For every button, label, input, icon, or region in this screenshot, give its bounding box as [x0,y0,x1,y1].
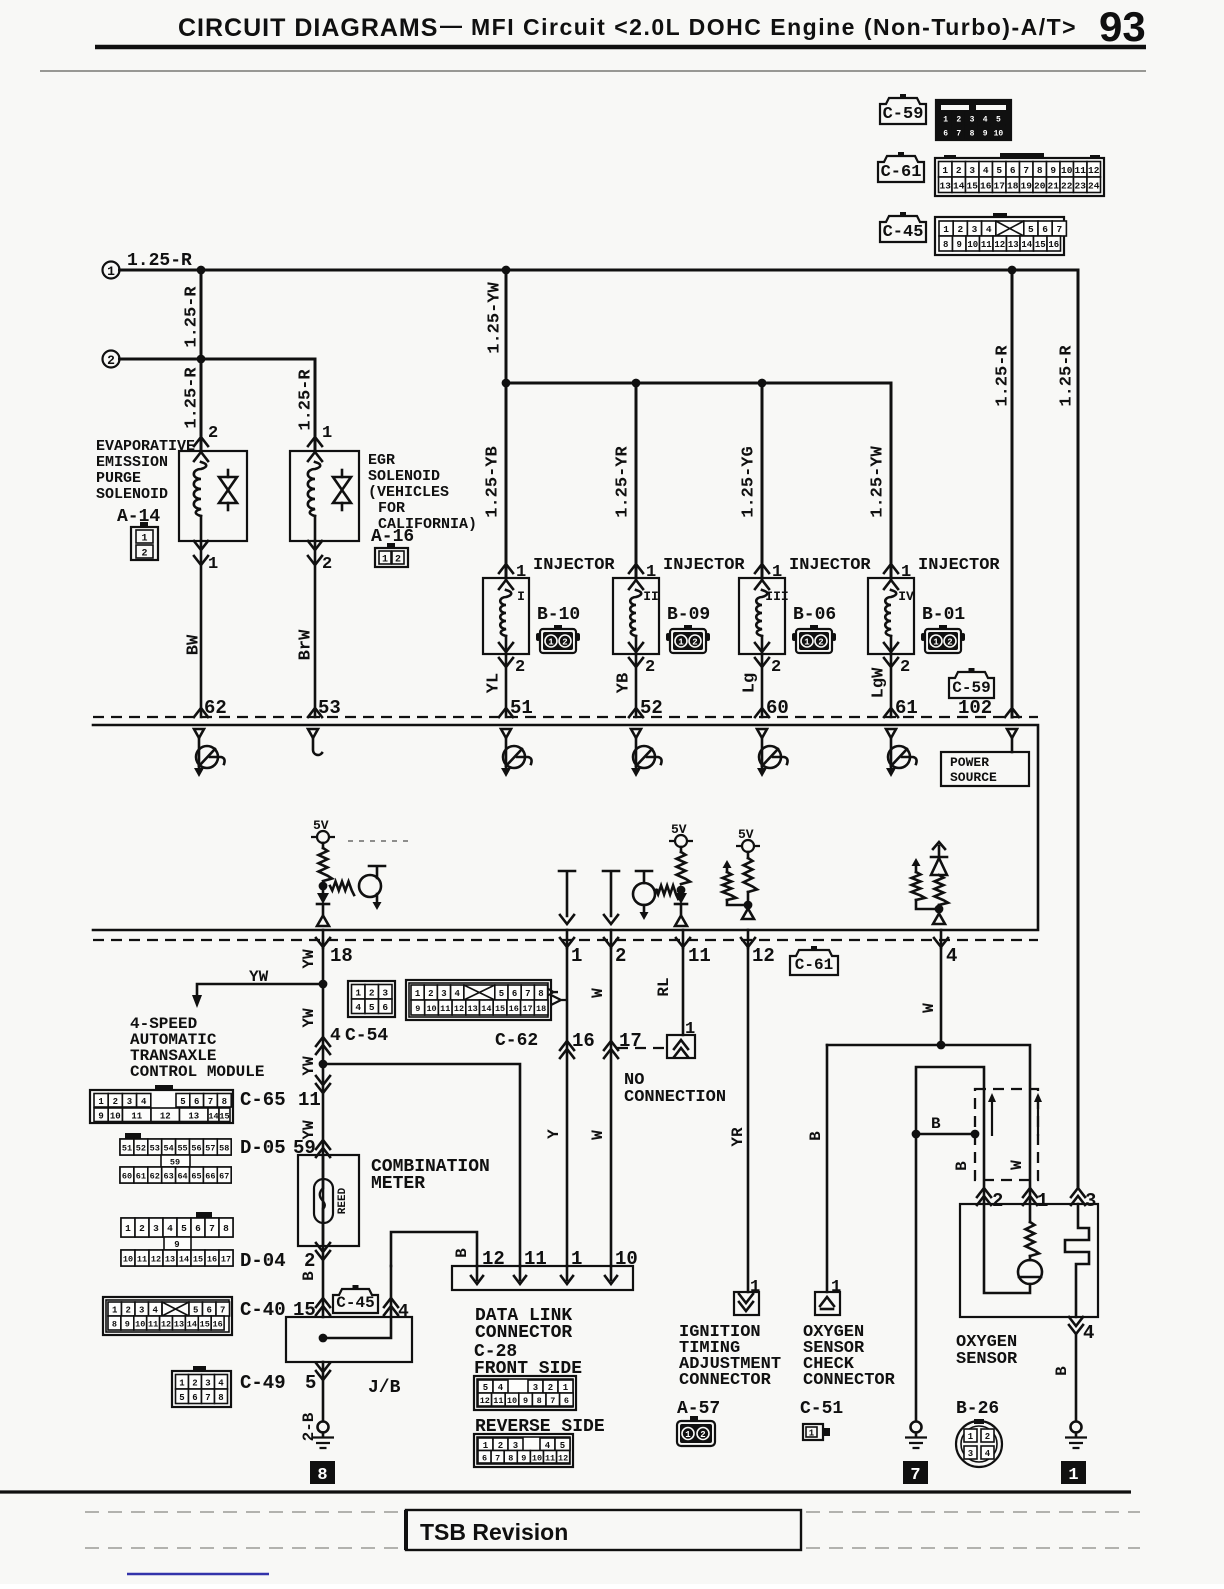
injector B-06 label [789,556,871,575]
svg-text:17: 17 [522,1004,532,1014]
wire label YW c [300,1056,318,1076]
svg-text:17: 17 [221,1255,231,1265]
svg-text:1: 1 [322,424,332,443]
resistor terminal 4 [935,875,949,909]
svg-text:CONTROL MODULE: CONTROL MODULE [130,1063,264,1081]
svg-text:11: 11 [545,1453,555,1463]
svg-text:10: 10 [135,1320,145,1330]
ECU input arrow x=199 [194,729,204,738]
wire B to oxygen sensor check connector [826,1045,829,1292]
TSB Revision box [406,1510,801,1550]
svg-text:13: 13 [468,1004,478,1014]
transistor Q11 [633,871,657,920]
svg-text:1: 1 [943,116,948,125]
pin 1 purge solenoid [208,555,218,574]
svg-text:13: 13 [188,1111,199,1121]
wire LgW to ECU 61 [890,654,893,717]
svg-text:6: 6 [564,1396,569,1406]
oxygen sensor check connector box [815,1278,841,1315]
svg-text:12: 12 [161,1320,171,1330]
svg-text:3: 3 [1085,1190,1096,1212]
wire label 1.25-R vertical lower [182,367,201,429]
connector A-16 label [371,527,414,547]
svg-text:B: B [953,1161,971,1171]
svg-text:C-54: C-54 [345,1026,388,1046]
connector C-49 icon [172,1366,231,1407]
svg-text:SENSOR: SENSOR [956,1350,1018,1369]
svg-text:2: 2 [369,987,375,998]
svg-text:12: 12 [454,1004,464,1014]
svg-text:10: 10 [507,1396,517,1406]
injector B-01 pin 2 [900,658,910,677]
svg-text:B: B [1053,1366,1071,1376]
ECU input arrow x=891 [886,729,896,738]
svg-text:14: 14 [481,1004,491,1014]
connector A-14 icon [131,522,158,560]
svg-text:3: 3 [153,1223,159,1234]
ECU output stem terminal 1 [559,871,575,924]
svg-text:PURGE: PURGE [96,470,141,487]
connector C-61 pin 17 [604,1030,642,1058]
svg-text:1: 1 [382,555,388,566]
svg-text:6: 6 [382,1002,388,1013]
svg-text:4: 4 [454,989,460,999]
svg-text:9: 9 [983,130,988,139]
svg-text:5: 5 [499,989,504,999]
svg-text:7: 7 [220,1306,225,1316]
svg-text:3: 3 [513,1441,518,1451]
svg-text:C-59: C-59 [952,679,990,697]
reed switch [314,1155,349,1246]
ECU stub terminal 53 [313,738,322,755]
svg-text:1.25-R: 1.25-R [296,369,315,431]
wire 1.25-YW down to injector bus [505,270,508,578]
svg-text:13: 13 [174,1320,184,1330]
ignition timing connector label [677,1323,781,1419]
svg-text:6: 6 [1042,224,1048,235]
svg-text:6: 6 [943,130,948,139]
svg-text:—: — [440,13,462,38]
svg-text:J/B: J/B [368,1378,401,1398]
svg-text:53: 53 [150,1144,160,1154]
connector C-51 icon [803,1424,830,1440]
heater ground loop [916,1067,984,1421]
svg-text:C-62: C-62 [495,1031,538,1051]
connector C-61 pin 16 [560,1030,595,1058]
svg-text:I: I [517,589,525,604]
wire 1.25-R to ECU pin 102 [1011,270,1014,717]
svg-text:BW: BW [184,634,203,655]
svg-text:5: 5 [369,1002,375,1013]
connector D-05 pin 59 [240,1137,330,1159]
svg-text:2: 2 [692,638,697,648]
svg-text:5: 5 [305,1372,316,1394]
svg-text:EMISSION: EMISSION [96,454,168,471]
svg-text:4: 4 [218,1378,224,1388]
svg-text:12: 12 [558,1453,568,1463]
wire YR from terminal 12 [747,948,750,1292]
svg-text:B-26: B-26 [956,1399,999,1419]
svg-text:13: 13 [1008,240,1019,250]
injector B-01 pin 1 [901,563,911,582]
svg-text:1: 1 [107,264,115,279]
junction YW to DLC [319,1060,328,1069]
ECU harness dashed line bottom [93,939,1038,941]
output arrow terminal 4 [933,914,945,925]
oxygen sensor label [956,1333,1018,1419]
svg-text:YB: YB [614,673,633,693]
wire YL to ECU 51 [505,654,508,717]
node 2 (circled) [103,351,120,369]
svg-text:4: 4 [398,1302,409,1322]
svg-text:8: 8 [508,1453,513,1463]
svg-text:9: 9 [1050,165,1056,176]
svg-text:2: 2 [304,1250,315,1272]
junction terminal 11 node [677,886,686,895]
svg-text:9: 9 [174,1240,179,1250]
junction injector 3 [758,379,767,388]
svg-text:1.25-R: 1.25-R [182,286,201,348]
svg-text:2: 2 [141,549,147,560]
wire label W b [589,1130,607,1140]
connector chevrons EGR top [308,437,322,461]
svg-text:8: 8 [222,1097,227,1107]
svg-text:INJECTOR: INJECTOR [533,556,615,575]
wire label Y a [545,987,563,997]
connector C-62 label [495,1031,538,1051]
pin 2 purge solenoid [208,424,218,443]
svg-text:12: 12 [160,1111,171,1121]
svg-text:23: 23 [1075,180,1087,191]
svg-text:BrW: BrW [296,629,315,660]
svg-text:1: 1 [646,563,656,582]
svg-text:4: 4 [983,116,988,125]
svg-text:1: 1 [943,224,949,235]
pull-down resistor terminal 12 [723,860,749,905]
svg-text:II: II [643,589,659,604]
svg-text:3: 3 [441,989,446,999]
footer dashes left [85,1512,400,1548]
connector A-14 label [117,507,160,527]
branch to A/T control module [192,968,323,1008]
svg-text:1.25-R: 1.25-R [1057,345,1076,407]
svg-text:8: 8 [538,989,543,999]
svg-text:2: 2 [956,165,962,176]
EGR solenoid body [290,451,359,541]
wire label B meter [300,1271,318,1281]
svg-text:7: 7 [209,1223,215,1234]
wire W split [827,1045,1030,1204]
svg-text:1.25-YR: 1.25-YR [613,446,632,518]
svg-text:1: 1 [942,165,948,176]
svg-text:1: 1 [968,1432,974,1442]
svg-text:C-65: C-65 [240,1089,286,1111]
svg-text:1: 1 [831,1278,841,1297]
svg-text:CONNECTION: CONNECTION [624,1088,726,1107]
svg-text:7: 7 [525,989,530,999]
connector chevrons injector B-10 top [499,564,513,589]
evaporative emission purge solenoid label [96,438,195,503]
footer rule [0,1490,1131,1493]
svg-text:10: 10 [426,1004,436,1014]
svg-text:14: 14 [1021,240,1032,250]
svg-text:1: 1 [1068,1466,1078,1485]
ground ref 8 [310,1461,335,1485]
svg-text:2: 2 [645,658,655,677]
svg-text:INJECTOR: INJECTOR [663,556,745,575]
oxygen sensor body [960,1204,1098,1317]
svg-text:C-45: C-45 [883,223,924,242]
svg-text:18: 18 [536,1004,546,1014]
wire W from terminal 4 [940,948,943,1045]
svg-text:C-59: C-59 [883,105,924,124]
svg-text:5: 5 [996,165,1002,176]
svg-text:INJECTOR: INJECTOR [918,556,1000,575]
svg-text:W: W [589,1130,607,1140]
transistor Q62 [194,738,225,777]
svg-text:1: 1 [516,563,526,582]
svg-text:14: 14 [179,1255,189,1265]
svg-text:15: 15 [200,1320,210,1330]
svg-text:1: 1 [355,987,361,998]
wire Lg to ECU 60 [761,654,764,717]
connector C-61 ref label [790,946,838,975]
ignition timing adjustment connector box [734,1278,760,1315]
zener diode terminal 11 [675,890,687,926]
wire 1.25-YB [483,446,502,517]
header rule thin [40,70,1146,72]
svg-text:4: 4 [330,1026,341,1046]
svg-text:2: 2 [515,658,525,677]
connector B-10 name [537,605,580,625]
junction block J/B [286,1266,412,1398]
faint dashed stub [348,840,412,842]
svg-text:3: 3 [205,1378,210,1388]
svg-text:CONNECTOR: CONNECTOR [803,1371,896,1390]
svg-text:3: 3 [968,1449,973,1459]
svg-text:14: 14 [187,1320,197,1330]
header rule thick [95,45,1146,50]
svg-text:1: 1 [1037,1190,1048,1212]
svg-text:10: 10 [532,1453,542,1463]
svg-text:61: 61 [136,1172,146,1182]
svg-text:1.25-YW: 1.25-YW [868,446,887,518]
svg-text:6: 6 [194,1097,199,1107]
injector B-01 label [918,556,1000,575]
svg-text:6: 6 [195,1223,201,1234]
svg-text:EVAPORATIVE: EVAPORATIVE [96,438,195,455]
svg-text:1: 1 [804,638,810,648]
svg-text:4: 4 [545,1441,551,1451]
diode terminal 4 [931,842,947,875]
svg-text:66: 66 [205,1172,215,1182]
svg-text:11: 11 [688,945,711,967]
oxygen sensor check connector label [800,1323,896,1419]
svg-text:3: 3 [382,987,388,998]
wire bus 1 [120,269,1079,272]
transistor Q51 [501,738,532,777]
connector C-65 pin 11 [240,1076,330,1111]
svg-text:1: 1 [809,1429,815,1439]
svg-text:B: B [931,1115,941,1133]
svg-text:3: 3 [969,165,975,176]
wire label B sensor [953,1161,971,1171]
svg-text:LgW: LgW [869,667,888,698]
svg-text:6: 6 [192,1393,197,1403]
svg-text:2: 2 [139,1223,145,1234]
junction B link right [971,1130,980,1139]
connector C-62 icon [406,980,567,1020]
svg-text:56: 56 [191,1144,201,1154]
wire label W c [920,1003,938,1013]
svg-text:5: 5 [996,116,1001,125]
svg-text:1: 1 [933,638,939,648]
connector C-45 pin grid [935,213,1066,255]
connector C-40 icon [103,1297,232,1335]
svg-text:IV: IV [898,589,914,604]
svg-text:1: 1 [208,555,218,574]
svg-text:1: 1 [750,1278,760,1297]
wire B from J/B to DLC 12 [391,1232,477,1266]
svg-text:12: 12 [994,240,1005,250]
svg-text:13: 13 [940,180,952,191]
svg-text:65: 65 [191,1172,201,1182]
svg-text:12: 12 [752,945,775,967]
transistor Q60 [757,738,788,777]
svg-text:4: 4 [1083,1322,1094,1344]
ECU 5V pull-up for terminal 18 [311,818,335,881]
wire 1.25-R far right [1077,270,1080,1188]
wire label RL [655,977,673,996]
DLC front side icon [474,1376,576,1410]
svg-text:1.25-YW: 1.25-YW [485,282,504,354]
svg-text:60: 60 [122,1172,132,1182]
ground (body) left [312,1422,334,1449]
connector B-09 icon [666,625,710,653]
svg-text:1: 1 [901,563,911,582]
connector C-45 pin 4 [384,1298,409,1322]
svg-text:EGR: EGR [368,452,395,469]
svg-text:4: 4 [167,1223,173,1234]
connector C-61 pin grid [935,153,1104,196]
svg-text:10: 10 [1061,165,1073,176]
connector C-59 ref at pin 102 [949,668,994,698]
svg-text:7: 7 [1023,165,1029,176]
svg-text:7: 7 [1056,224,1062,235]
connector B-01 icon [921,625,965,653]
page title [178,3,1146,50]
injector B-09 pin 1 [646,563,656,582]
ECU harness dashed line top [93,716,1038,718]
DLC pin labels [482,1248,638,1270]
svg-text:2: 2 [992,1190,1003,1212]
svg-text:8: 8 [970,130,975,139]
svg-text:C-61: C-61 [795,956,833,974]
svg-text:12: 12 [480,1396,490,1406]
svg-text:5: 5 [193,1306,198,1316]
svg-text:14: 14 [953,180,965,191]
DLC reverse side icon [474,1434,573,1467]
connector chevrons EGR bottom [308,541,322,565]
svg-text:2: 2 [947,638,952,648]
svg-text:64: 64 [177,1172,187,1182]
svg-text:10: 10 [110,1111,121,1121]
wire label W a [589,988,607,998]
terminal 12 bottom [741,930,775,967]
svg-text:8: 8 [1037,165,1043,176]
svg-text:A-14: A-14 [117,507,160,527]
svg-text:7: 7 [956,130,961,139]
svg-text:13: 13 [165,1255,175,1265]
terminal 51 [499,697,533,719]
connector C-59 pin grid [936,100,1011,140]
svg-text:57: 57 [205,1144,215,1154]
wire down injector II [635,383,638,578]
svg-text:10: 10 [994,130,1004,139]
svg-text:12: 12 [1088,165,1100,176]
svg-text:1: 1 [563,1383,569,1393]
svg-text:11: 11 [148,1320,158,1330]
svg-text:MFI Circuit <2.0L DOHC Engine: MFI Circuit <2.0L DOHC Engine (Non-Turbo… [471,14,1077,40]
svg-text:3: 3 [533,1383,538,1393]
svg-text:8: 8 [943,240,948,250]
svg-text:18: 18 [330,945,353,967]
svg-text:W: W [1008,1160,1026,1170]
svg-text:1: 1 [678,638,684,648]
connector chevrons injector B-06 top [755,564,769,589]
transistor Q61 [886,738,917,777]
footer dashes right [806,1512,1140,1548]
junction terminal 12 node [744,901,753,910]
connector C-61 label [878,152,924,182]
svg-text:2: 2 [428,989,433,999]
wire down injector III [761,383,764,578]
connector C-54 pin 4 [316,1026,388,1054]
svg-text:55: 55 [177,1144,187,1154]
svg-text:YW: YW [300,1056,318,1076]
connector B-10 icon [536,625,580,653]
DLC reverse side label [475,1417,605,1437]
svg-text:4: 4 [355,1002,361,1013]
svg-text:8: 8 [223,1223,229,1234]
svg-text:1.25-YB: 1.25-YB [483,446,502,517]
svg-text:7: 7 [910,1466,920,1485]
svg-text:2: 2 [548,1383,553,1393]
svg-text:1: 1 [571,945,582,967]
svg-text:1: 1 [112,1306,118,1316]
connector C-59 label [880,94,926,124]
svg-text:2: 2 [985,1432,990,1442]
connector chevrons injector B-09 bottom [629,643,643,667]
wire label W sensor [1008,1160,1026,1170]
svg-text:B-06: B-06 [793,605,836,625]
svg-text:11: 11 [440,1004,450,1014]
connector C-49 pin 5 [240,1363,330,1394]
svg-text:REED: REED [337,1187,349,1214]
svg-text:5: 5 [560,1441,565,1451]
wire YW to data link connector [323,1064,520,1266]
wire label 1.25-YW injector IV [868,446,887,518]
svg-text:11: 11 [131,1111,142,1121]
terminal 62 [194,697,227,719]
pull resistor terminal 4 [912,858,940,909]
svg-text:15: 15 [219,1111,229,1121]
svg-text:8: 8 [317,1466,327,1485]
junction B link left [912,1130,921,1139]
svg-text:11: 11 [137,1255,147,1265]
base resistor Q11 [656,886,678,900]
wire Y from terminal 1 [566,948,569,1266]
